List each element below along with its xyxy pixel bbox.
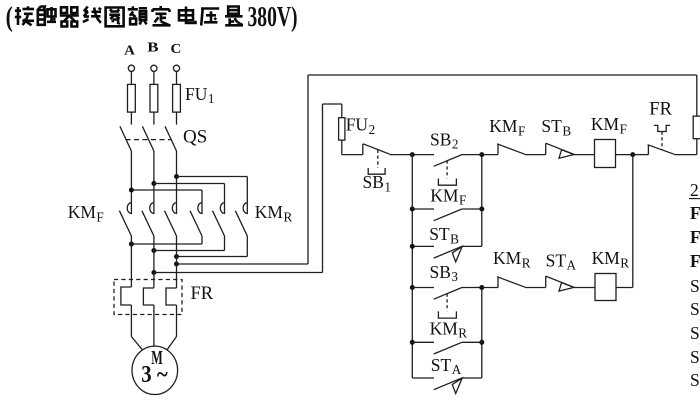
svg-text:KMF: KMF (489, 116, 525, 138)
contact KM_F latch (NO) (412, 209, 482, 221)
wire: phase B to control circuit feed (154, 272, 323, 274)
wire: KM_F coil to coil bus (616, 154, 633, 156)
svg-text:KMR: KMR (430, 318, 468, 340)
thermal relay FR dashed box (114, 280, 182, 315)
svg-text:FR: FR (649, 100, 672, 120)
fuse FU1 element phase B (150, 84, 158, 112)
wire: to SB1 left terminal (342, 154, 363, 156)
junction: bus1 row2 (410, 207, 415, 212)
svg-text:KMF: KMF (430, 185, 466, 207)
wire: KM_R pole2 bottom (224, 236, 226, 251)
contactor KM_F main contact at x=176.5 (165, 203, 177, 236)
contactor KM_R main contact at x=224.5 (213, 203, 225, 236)
wire: control feed L2 vertical (322, 104, 324, 273)
contactor KM_R main contact at x=247.3 (235, 203, 247, 236)
wire: FR to motor, phase B (153, 305, 155, 346)
wire: control feed L1 vertical (307, 75, 309, 264)
svg-text:S: S (690, 347, 700, 367)
svg-text:S: S (690, 299, 700, 319)
svg-text:KMR: KMR (592, 248, 630, 270)
svg-text:S: S (690, 276, 700, 296)
wire: slant into motor, phase A (131, 337, 142, 350)
terminal circle phase B (151, 65, 157, 71)
wire: KM_R pole3 bottom to phase C (177, 256, 248, 258)
svg-text:SB2: SB2 (430, 129, 459, 151)
junction: bus1 / SB1 / SB2 (410, 152, 415, 157)
clipped text column at right edge (689, 180, 700, 390)
terminal circle phase A (128, 65, 134, 71)
junction: bus2 row5 (479, 340, 484, 345)
wire: FR to motor, phase A (130, 305, 132, 337)
svg-text:KMF: KMF (591, 114, 627, 136)
switch QS blade phase A (120, 126, 131, 151)
wire: terminal C to fuse FU1 (176, 71, 178, 84)
wire: phase B to FR heater (153, 236, 155, 288)
svg-text:3 ~: 3 ~ (141, 362, 168, 388)
wire: terminal A to fuse FU1 (130, 71, 132, 84)
junction: tap phase C to KM_R (174, 174, 179, 179)
svg-text:KMF: KMF (68, 202, 104, 224)
wire: phase C to control circuit feed (177, 263, 309, 265)
title: (接触器线圈额定电压是380V) (15, 6, 243, 27)
switch QS blade phase C (165, 126, 177, 151)
junction: bus2 row1 (479, 152, 484, 157)
svg-text:F: F (690, 227, 700, 247)
limit switch ST_A series (NC) (546, 276, 595, 291)
junction: coil bus / FR (630, 152, 635, 157)
svg-text:STB: STB (541, 116, 571, 138)
pushbutton SB3 (reverse start, NO) (412, 288, 482, 300)
svg-text:STB: STB (429, 224, 459, 246)
junction: tap phase A to KM_R (129, 188, 134, 193)
fuse FU2 element (left) (339, 118, 345, 140)
wire: bus2 vertical (forward group) (481, 155, 483, 247)
junction: bus1 row3 (410, 244, 415, 249)
contact KM_F series (row1) (482, 144, 546, 155)
wire: phase A to FR heater (130, 236, 132, 287)
svg-text:FU2: FU2 (346, 115, 375, 137)
contactor KM_R main contact at x=202.0 (190, 203, 202, 236)
svg-text:(: ( (6, 2, 13, 33)
wire: down to KM_R pole 3 top (246, 177, 248, 215)
contact KM_R latch (NO) (412, 342, 482, 354)
wire: FU2 to SB1 (341, 140, 343, 155)
limit switch ST_B parallel contact (412, 246, 482, 262)
junction: phase C control feed (174, 262, 179, 267)
QS linkage dashed line (126, 139, 171, 141)
svg-text:SB1: SB1 (363, 172, 392, 194)
svg-text:C: C (171, 42, 182, 57)
svg-text:380V): 380V) (248, 2, 298, 33)
svg-text:QS: QS (183, 127, 207, 148)
wire: phase C tap to KM_R pole 3 (177, 176, 248, 178)
pushbutton SB2 (forward start, NO) (412, 155, 482, 167)
wire: FU1 to QS, phase B (153, 112, 155, 125)
wire: KM_R coil lead (616, 287, 633, 289)
switch QS blade phase B (142, 126, 154, 151)
wire: KM_R pole2 bottom to phase B (154, 250, 225, 252)
wire: down to KM_R pole 2 top (224, 184, 226, 215)
wire: phase A, QS to KM_F contact (130, 151, 132, 214)
svg-text:F: F (690, 203, 700, 223)
wire: phase C, QS to KM_F contact (176, 151, 178, 214)
junction: phase C / KM_R pole3 (174, 254, 179, 259)
motor M 3~ (132, 346, 178, 394)
svg-text:KMR: KMR (493, 248, 531, 270)
wire: right rail upper (696, 75, 698, 116)
svg-text:2: 2 (690, 180, 699, 200)
wire: phase B, QS to KM_F contact (153, 151, 155, 214)
wire: bus2 vertical (reverse group) (481, 288, 483, 379)
wire: FU1 to QS, phase A (130, 112, 132, 125)
junction: phase A / KM_R pole1 (129, 242, 134, 247)
wire: FU1 to QS, phase C (176, 112, 178, 125)
coil KM_R (595, 274, 616, 301)
limit switch ST_B series (NC) (546, 143, 595, 158)
svg-text:SB3: SB3 (430, 262, 459, 284)
fuse FU2 element (right) (693, 116, 700, 139)
junction: tap phase B to KM_R (151, 181, 156, 186)
svg-text:F: F (690, 251, 700, 271)
svg-text:KMR: KMR (255, 202, 293, 224)
svg-text:STA: STA (546, 250, 577, 272)
wire: KM_R pole1 bottom to phase A (131, 243, 202, 245)
wire: KM_R pole1 bottom (201, 236, 203, 244)
contact KM_R series (row4) (482, 277, 546, 288)
wire: FR to motor, phase C (176, 305, 178, 337)
junction: bus2 row4 (479, 285, 484, 290)
wire: phase C to FR heater (176, 236, 178, 288)
svg-text:A: A (124, 44, 136, 59)
pushbutton SB1 (NC stop button) (363, 144, 413, 174)
junction: bus1 row5 (410, 340, 415, 345)
wire: control top rail (308, 74, 697, 76)
svg-text:FR: FR (191, 284, 214, 304)
limit switch ST_A parallel contact (412, 378, 482, 394)
coil KM_F (595, 140, 616, 168)
junction: bus1 row4 (410, 285, 415, 290)
wire: slant into motor, phase C (167, 337, 177, 350)
wire: feed L2 horizontal (323, 103, 342, 105)
svg-text:STA: STA (431, 355, 462, 377)
junction: phase B control feed (151, 270, 156, 275)
thermal relay FR heater element x=153.9 (143, 288, 154, 305)
relay contact FR (NC, control) (633, 125, 697, 154)
svg-text:B: B (147, 40, 158, 55)
fuse FU1 element phase C (173, 84, 181, 112)
junction: bus2 row2 (479, 207, 484, 212)
svg-text:S: S (690, 370, 700, 390)
fuse FU1 element phase A (128, 84, 136, 112)
contactor KM_F main contact at x=131.4 (119, 203, 131, 236)
wire: bus1 vertical (411, 155, 413, 378)
wire: coil bus vertical (632, 155, 634, 288)
terminal circle phase C (173, 65, 179, 71)
thermal relay FR heater element x=131.4 (121, 287, 131, 305)
svg-text:S: S (690, 323, 700, 343)
svg-text:FU1: FU1 (185, 84, 214, 106)
contactor KM_F main contact at x=153.9 (142, 203, 154, 236)
wire: right rail lower (696, 139, 698, 155)
wire: KM_R pole3 bottom (246, 236, 248, 257)
wire: into FU2 (341, 104, 343, 118)
wire: phase B tap to KM_R pole 2 (154, 183, 225, 185)
wire: down to KM_R pole 1 top (201, 190, 203, 214)
wire: phase A tap to KM_R pole 1 (131, 189, 202, 191)
junction: phase B / KM_R pole2 (151, 248, 156, 253)
wire: terminal B to fuse FU1 (153, 71, 155, 84)
thermal relay FR heater element x=176.5 (166, 288, 177, 305)
